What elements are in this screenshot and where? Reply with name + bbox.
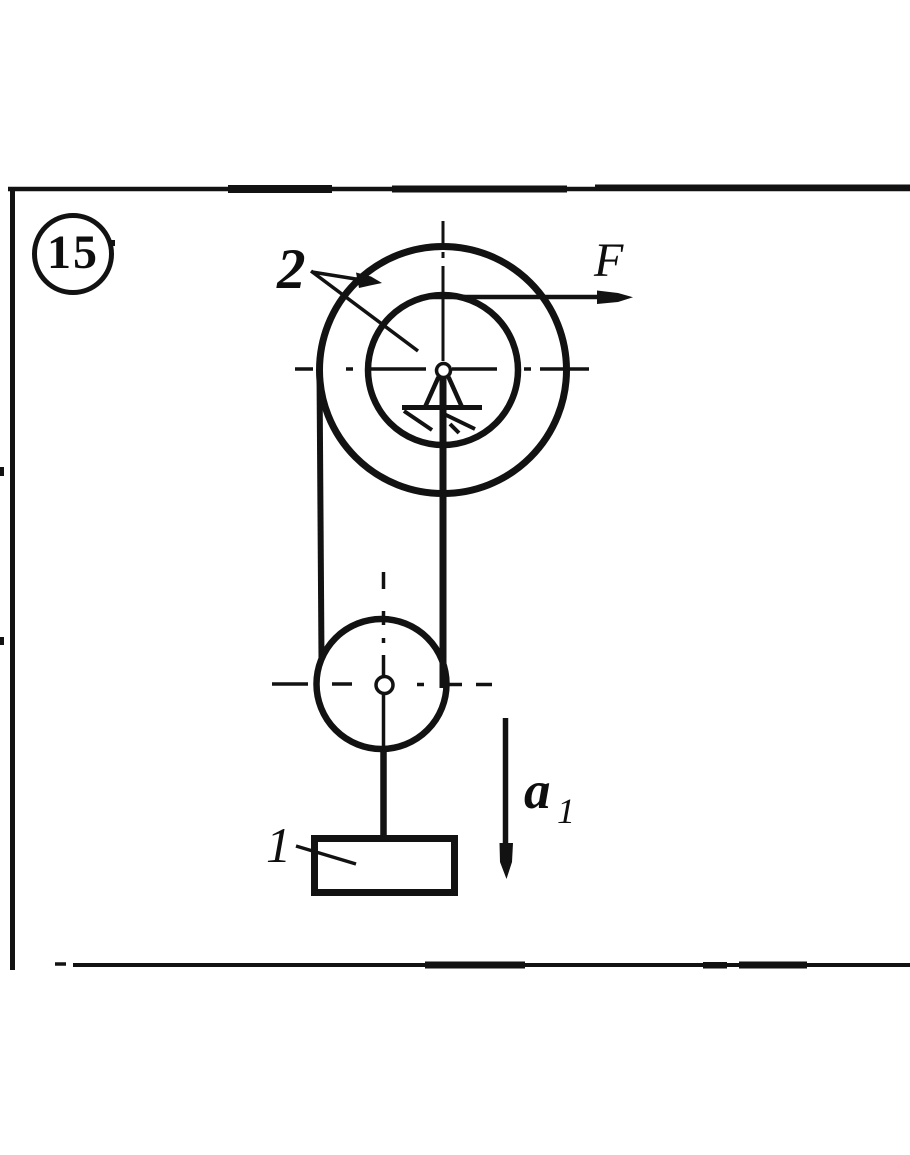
- pivot hatching: [404, 411, 475, 433]
- svg-text:F: F: [593, 234, 624, 287]
- svg-text:1: 1: [266, 817, 291, 873]
- pulley 1 hub hole: [376, 677, 393, 694]
- problem number badge circle: [35, 216, 112, 293]
- frame top border: [8, 185, 910, 194]
- leader line from label 2 to inner rim: [311, 271, 418, 351]
- acceleration label a1: [524, 762, 575, 831]
- paper edge speck lower: [0, 637, 4, 645]
- svg-text:a: a: [524, 762, 551, 820]
- pulley 2 inner circle: [368, 295, 518, 445]
- load block 1: [315, 839, 455, 893]
- pivot pin: [437, 364, 451, 378]
- leader from label 1 into block: [296, 846, 356, 864]
- svg-text:2: 2: [276, 238, 306, 301]
- left rope: [320, 371, 322, 659]
- frame left border: [10, 187, 15, 970]
- pulley 1 vertical centerline: [382, 572, 386, 752]
- pulley 2 vertical centerline: [442, 221, 445, 361]
- right rope: [440, 377, 447, 688]
- hanging rope to load: [380, 748, 387, 836]
- leader arrow from label 2 to outer rim: [312, 272, 382, 288]
- pulley 2 horizontal centerline: [295, 367, 589, 371]
- pivot triangle right leg: [449, 377, 462, 406]
- pulley 1 horizontal centerline: [272, 682, 492, 686]
- frame bottom border: [55, 962, 910, 969]
- svg-text:15: 15: [47, 226, 99, 279]
- pivot triangle left leg: [426, 377, 439, 406]
- acceleration arrow a1: [500, 718, 514, 879]
- pivot ground line: [402, 405, 482, 410]
- badge edge tick: [110, 240, 116, 246]
- paper edge speck upper: [0, 467, 4, 476]
- pulley 2 outer circle: [320, 247, 567, 494]
- force F arrow: [429, 291, 633, 305]
- pulley 1 circle: [317, 619, 447, 749]
- svg-text:1: 1: [557, 791, 575, 831]
